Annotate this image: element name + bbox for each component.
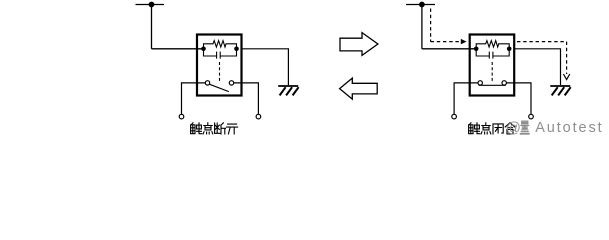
node B (left RC right junction) <box>234 47 239 52</box>
arrowhead flow down at ground <box>563 74 569 80</box>
switch blade closed (right circuit) <box>479 84 506 86</box>
switch contact right terminal (right circuit) <box>502 81 506 85</box>
wire top bus (left circuit) <box>136 4 165 6</box>
wire switch to bottom-right terminal <box>234 83 259 114</box>
block arrow right <box>340 33 378 56</box>
node junction dot (right circuit top) <box>419 2 425 8</box>
switch contact left terminal (left circuit) <box>205 81 209 85</box>
glyph 点 <box>203 123 213 134</box>
wire into box left (right circuit RC row) <box>422 48 476 50</box>
terminal bottom-left (left circuit) <box>179 114 184 119</box>
watermark "@量Autotest" <box>506 119 604 136</box>
enclosure box (right relay) <box>470 35 515 96</box>
wire switch to bottom-left terminal (right) <box>454 83 478 114</box>
switch blade open (left circuit) <box>210 84 229 91</box>
glyph 点 <box>481 123 491 134</box>
switch contact left terminal (right circuit) <box>478 81 482 85</box>
block arrow left <box>340 78 378 99</box>
wire box to ground (right circuit) <box>514 49 560 85</box>
glyph 闭 <box>493 124 503 134</box>
dashed actuator link (left) <box>219 62 221 81</box>
label "触点断开" (contact open) <box>191 123 238 134</box>
glyph 触 <box>469 123 480 134</box>
node D (right RC right junction) <box>507 47 512 52</box>
terminal bottom-right (right circuit) <box>529 114 534 119</box>
wire box to ground (left circuit) <box>242 49 289 85</box>
capacitor (left RC bottom branch) <box>204 49 237 59</box>
terminal bottom-right (left circuit) <box>256 114 261 119</box>
terminal bottom-left (right circuit) <box>452 114 457 119</box>
wire vertical from top node (right) <box>421 5 423 49</box>
wire vertical from top node <box>151 5 153 49</box>
label "触点闭合" (contact closed) <box>469 123 515 134</box>
switch contact right terminal (left circuit) <box>229 81 233 85</box>
svg-text:Autotest: Autotest <box>535 120 603 136</box>
enclosure box (left relay) <box>197 35 242 96</box>
ground (left circuit, chassis) <box>278 86 298 95</box>
watermark glyph 量 <box>520 121 530 134</box>
dashed actuator link (right) <box>491 62 493 81</box>
glyph 断 <box>215 123 226 134</box>
glyph 合 <box>505 123 515 134</box>
wire top bus (right circuit) <box>406 4 435 6</box>
arrowhead flow into box <box>461 39 467 44</box>
resistor (right RC top branch) <box>476 41 509 49</box>
svg-text:@: @ <box>506 119 521 136</box>
wire into box left (RC row) <box>152 48 204 50</box>
wire switch to bottom-left terminal <box>182 83 206 114</box>
node A (left RC left junction) <box>201 47 206 52</box>
node junction dot (left circuit top) <box>149 2 155 8</box>
dashed current flow path (right of box, down to ground with arrowhead) <box>517 42 567 74</box>
glyph 开 <box>227 124 238 134</box>
node C (right RC left junction) <box>474 47 479 52</box>
resistor (left RC top branch) <box>204 41 237 49</box>
dashed current flow path (down + right with arrowhead) <box>431 9 461 42</box>
capacitor (right RC bottom branch) <box>476 49 509 59</box>
wire switch to bottom-right terminal (right) <box>507 83 532 114</box>
ground (right circuit, chassis) <box>550 86 570 95</box>
glyph 触 <box>191 123 202 134</box>
